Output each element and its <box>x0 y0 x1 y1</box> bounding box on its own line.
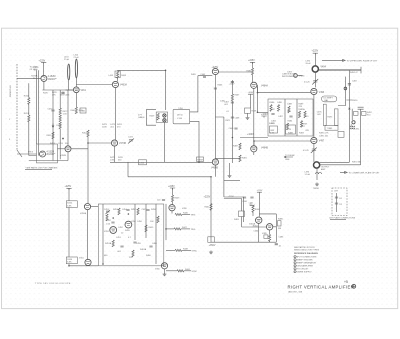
capacitor C467 <box>231 102 234 103</box>
svg-text:TO UPPER DEFL PLATE OF CRT: TO UPPER DEFL PLATE OF CRT <box>347 60 378 63</box>
capacitor C460 <box>149 246 152 247</box>
node junction dots in box <box>112 217 114 219</box>
svg-text:2.7K: 2.7K <box>271 109 276 111</box>
wire long line lower <box>128 176 211 178</box>
resistor R482 <box>252 62 254 68</box>
tube V453 <box>110 227 117 234</box>
tube V464B <box>212 159 218 165</box>
box R456 <box>66 257 77 264</box>
svg-text:TERM: TERM <box>197 159 203 161</box>
svg-text:OF V450: OF V450 <box>30 69 39 71</box>
resistor R462 <box>252 206 254 213</box>
wire <box>87 210 89 260</box>
box shield around Q471 <box>37 144 58 163</box>
trigger output row 3 <box>166 249 175 251</box>
svg-text:RIGHT VERTICAL AMPLIFIER: RIGHT VERTICAL AMPLIFIER <box>288 284 355 289</box>
transistor Q471 <box>40 151 46 157</box>
wire <box>313 144 315 162</box>
svg-text:2N2207*: 2N2207* <box>46 154 55 156</box>
box delay line termination T450 <box>173 109 190 124</box>
svg-text:V461: V461 <box>81 90 87 92</box>
wire <box>214 165 216 177</box>
capacitor C458 <box>120 246 123 247</box>
svg-text:V452A: V452A <box>80 212 87 215</box>
wire ground stub under V455 <box>164 269 166 273</box>
node termination lower <box>197 157 204 161</box>
svg-text:TRIG: TRIG <box>191 215 196 217</box>
resistor R452A <box>106 214 108 221</box>
capacitor C452 <box>111 222 114 223</box>
wire <box>163 122 165 162</box>
svg-text:CABLE: CABLE <box>138 116 145 119</box>
resistor R472 <box>59 108 61 115</box>
transistor Q470 <box>41 75 47 81</box>
node bracket TO CRT <box>278 221 282 226</box>
svg-text:R451A: R451A <box>105 242 112 245</box>
wire top feed <box>224 198 242 200</box>
wire inner columns <box>103 204 156 264</box>
wire right tall column inner <box>348 71 350 163</box>
tube V464A <box>212 68 218 74</box>
wire <box>313 95 315 138</box>
wire cathode chain <box>114 88 116 140</box>
resistor R452b <box>52 132 54 139</box>
svg-text:DE 50: DE 50 <box>177 114 183 116</box>
wire delay feed <box>258 111 269 113</box>
svg-text:+100V: +100V <box>261 114 268 116</box>
node J450 interconnecting-plug dashed line <box>16 64 18 150</box>
svg-text:TYPE 585 OSCILLOSCOPE: TYPE 585 OSCILLOSCOPE <box>35 283 71 285</box>
power +350V bottom <box>211 241 276 243</box>
svg-text:V463A: V463A <box>120 83 127 86</box>
tube V484A <box>251 82 257 88</box>
svg-text:+225V: +225V <box>228 196 235 198</box>
wire <box>165 204 167 240</box>
wire plate bus upper to output <box>258 87 311 113</box>
box picture-correction network <box>268 99 313 136</box>
wire <box>68 80 70 90</box>
resistor R458 <box>157 216 159 223</box>
node arrow symbol on x53 column <box>52 124 54 128</box>
svg-text:1 INPUT CONNECTORS: 1 INPUT CONNECTORS <box>294 256 317 258</box>
resistor R459 <box>157 113 159 120</box>
tube V452B <box>65 146 71 152</box>
coil L490 <box>350 124 355 129</box>
svg-text:SEE PARTS LIST FOR: SEE PARTS LIST FOR <box>294 246 315 249</box>
wire bottom join <box>29 160 68 162</box>
wire thick plate lead <box>318 69 361 71</box>
trigger output row 2 <box>166 228 174 230</box>
node components under V484B <box>234 128 237 129</box>
wire <box>253 88 255 145</box>
node connector circle <box>344 87 347 90</box>
wire <box>43 62 45 75</box>
node junction marks <box>349 108 351 110</box>
capacitor C493 trimmer <box>312 79 318 85</box>
svg-text:LINE: LINE <box>285 159 290 161</box>
box T-pad <box>325 126 338 131</box>
capacitor C487 <box>271 114 274 115</box>
svg-text:PIN 3: PIN 3 <box>28 151 34 153</box>
wire lower output of driver <box>190 121 199 162</box>
box L464 on line <box>139 160 147 165</box>
box R455 <box>66 201 77 208</box>
svg-text:100K: 100K <box>102 127 107 129</box>
delay line section 2 <box>335 109 339 126</box>
tube V452A <box>84 204 90 210</box>
svg-text:V464B: V464B <box>211 168 218 170</box>
svg-text:1.5K: 1.5K <box>63 114 68 116</box>
wire <box>269 230 271 234</box>
svg-text:R496 4.7K: R496 4.7K <box>319 133 329 135</box>
wire plate bus to delay driver <box>118 70 166 110</box>
svg-text:+225V: +225V <box>204 197 211 199</box>
svg-text:+225V: +225V <box>65 186 72 188</box>
box main lower amp box <box>98 204 164 266</box>
tube V484B <box>251 146 257 152</box>
wire emitter down <box>42 81 73 90</box>
box term <box>338 131 344 137</box>
wire collector rail <box>36 70 38 155</box>
wire long cathode line to V464B <box>110 161 212 163</box>
wire main top bus <box>76 84 112 86</box>
trigger output row 1 <box>175 213 182 215</box>
wire arrow to lower CRT plate <box>340 171 347 173</box>
capacitor pair on feed <box>243 197 246 198</box>
svg-text:V484B: V484B <box>261 148 268 150</box>
wire right leg <box>259 214 276 242</box>
svg-text:V484A: V484A <box>261 84 268 87</box>
wire right tall column outer <box>360 109 362 165</box>
node junction dots <box>68 70 258 267</box>
svg-text:6 POWER SUPPLY: 6 POWER SUPPLY <box>294 271 312 273</box>
power +225V above V484A <box>250 62 255 64</box>
wire into follower <box>66 89 74 91</box>
wire second inner column <box>351 109 353 120</box>
svg-text:+100V: +100V <box>247 134 254 136</box>
tube V454 <box>125 221 132 228</box>
tube V494 output dark <box>312 66 318 72</box>
svg-text:R494 47: R494 47 <box>350 72 358 74</box>
capacitor C491 <box>358 107 364 109</box>
wire upper output of driver <box>190 76 213 112</box>
svg-text:SYNC: SYNC <box>192 271 198 273</box>
wire <box>87 136 89 203</box>
wire <box>71 148 88 150</box>
wire main vertical at 257.5 <box>257 85 259 93</box>
wire <box>117 70 119 81</box>
svg-text:TO LOWER DEFL PLATE OF CRT: TO LOWER DEFL PLATE OF CRT <box>349 172 381 175</box>
tube V497 <box>311 137 317 143</box>
wire column x53 <box>52 90 54 161</box>
wire <box>258 223 260 242</box>
svg-text:JAN 1959 - 56B: JAN 1959 - 56B <box>288 290 303 293</box>
box R490 <box>354 112 359 116</box>
tube V459 <box>169 205 175 211</box>
svg-text:TO DELAY: TO DELAY <box>285 154 295 157</box>
wire <box>314 72 316 87</box>
ground <box>315 183 319 186</box>
svg-text:+225V: +225V <box>312 51 319 53</box>
svg-text:V497: V497 <box>319 141 325 143</box>
wire <box>75 93 77 107</box>
svg-text:+350V: +350V <box>209 245 216 247</box>
svg-text:V494: V494 <box>321 67 327 69</box>
wire arrow to upper CRT plate <box>322 59 345 61</box>
wire grid tap to V473B <box>88 142 111 144</box>
svg-text:+5: +5 <box>344 280 348 284</box>
wire <box>75 78 77 87</box>
connector circles with X <box>163 114 166 117</box>
capacitor C472 <box>51 110 54 111</box>
neon T452 vertical coil <box>75 59 77 78</box>
svg-text:REFERENCE DIAGRAMS: REFERENCE DIAGRAMS <box>294 252 318 255</box>
resistor inside <box>117 71 119 78</box>
capacitor C497 trimmer <box>311 148 317 154</box>
svg-text:V493: V493 <box>319 92 325 94</box>
node tube inner elements <box>66 71 316 267</box>
resistor R449 <box>171 195 173 202</box>
resistor R461 cluster <box>75 107 77 114</box>
node cluster under V461 <box>80 108 86 113</box>
svg-text:6.8K: 6.8K <box>67 205 72 207</box>
svg-text:T PAD: T PAD <box>327 127 333 130</box>
capacitor C489 <box>289 116 292 117</box>
node test point <box>294 74 298 78</box>
coil L496 <box>316 168 322 180</box>
wire plate link <box>219 71 253 73</box>
wire down from V473 area <box>127 162 129 177</box>
tube V497B output dark <box>314 162 320 168</box>
svg-text:TRIG: TRIG <box>191 229 196 231</box>
wire <box>91 206 98 208</box>
svg-text:R491 330: R491 330 <box>352 162 362 164</box>
svg-text:2N2207*: 2N2207* <box>48 79 57 81</box>
svg-text:SEMICONDUCTOR TYPES: SEMICONDUCTOR TYPES <box>294 250 320 252</box>
svg-text:27uH: 27uH <box>74 57 79 59</box>
svg-text:R461A: R461A <box>140 248 147 251</box>
resistor R483 <box>298 111 300 118</box>
svg-text:27uH: 27uH <box>64 59 69 61</box>
wire column x60 <box>59 90 61 108</box>
svg-text:+225V: +225V <box>39 60 46 62</box>
svg-text:4.5-25: 4.5-25 <box>304 82 311 84</box>
delay line driver cable loop <box>146 110 156 126</box>
wire <box>67 90 69 161</box>
svg-text:1.2K: 1.2K <box>287 129 292 131</box>
wire cathode link <box>215 157 240 159</box>
tube V463A <box>112 81 118 87</box>
wire <box>69 264 98 266</box>
svg-text:+225V: +225V <box>248 60 255 62</box>
svg-text:+100V: +100V <box>229 84 236 86</box>
node box small under V485 <box>264 235 268 239</box>
capacitor C468 <box>231 117 234 118</box>
wire left bias column <box>28 83 30 97</box>
svg-text:4 HORIZ AMPLIFIER: 4 HORIZ AMPLIFIER <box>294 264 313 267</box>
tube V451 <box>85 259 91 265</box>
tube V485 <box>266 224 272 230</box>
svg-text:4.5-25: 4.5-25 <box>303 150 310 152</box>
resistor R451 <box>28 115 30 122</box>
node junction dot <box>62 138 64 140</box>
node C456 mark <box>61 93 64 94</box>
svg-text:AMP: AMP <box>321 168 326 171</box>
node notes block <box>294 246 320 273</box>
svg-text:20uH: 20uH <box>306 63 311 65</box>
power +225V <box>66 188 71 190</box>
wire link to right column <box>320 161 350 163</box>
wire to delay note <box>284 156 293 158</box>
wire <box>114 146 116 162</box>
resistor R454 <box>87 130 89 137</box>
svg-text:1.5K: 1.5K <box>106 224 111 226</box>
svg-text:V473B: V473B <box>119 143 126 145</box>
resistor R485 <box>269 234 271 241</box>
svg-text:3 SWEEP GENERATOR: 3 SWEEP GENERATOR <box>294 261 316 264</box>
svg-text:SYNC: SYNC <box>192 250 198 252</box>
svg-text:TP494: TP494 <box>299 76 306 78</box>
resistor R470b <box>239 155 241 162</box>
delay line section 1 <box>323 104 326 125</box>
tube V461 cathode follower <box>73 87 79 93</box>
wire input lower <box>17 153 37 155</box>
box around coupling <box>156 112 167 122</box>
capacitor C474 trimmer <box>128 139 134 144</box>
tube V473B <box>111 140 117 146</box>
wire grid link <box>58 148 66 150</box>
resistor R450 <box>28 98 30 105</box>
neon T451 vertical coil <box>68 64 70 80</box>
svg-text:+225V: +225V <box>168 186 175 188</box>
wire <box>171 211 173 214</box>
wire input upper <box>17 77 41 79</box>
wire <box>215 75 243 222</box>
tube V461A <box>256 217 262 223</box>
resistor R467 <box>231 94 233 101</box>
node DC SHIFT oval label <box>322 96 337 102</box>
resistor R461A <box>132 250 134 257</box>
svg-text:1.2uH: 1.2uH <box>305 174 311 176</box>
svg-text:FROM PLUG: FROM PLUG <box>10 85 12 97</box>
svg-text:V452B: V452B <box>60 155 67 157</box>
trigger output row 4 <box>166 270 177 272</box>
svg-text:1.8K: 1.8K <box>110 160 115 162</box>
svg-text:R485A: R485A <box>299 108 306 111</box>
wire riser <box>210 177 212 242</box>
box peaking network above V473A <box>115 71 120 78</box>
capacitor C492 <box>348 84 351 85</box>
box R492 <box>362 112 367 116</box>
svg-text:2 SWEEP TRIGGER: 2 SWEEP TRIGGER <box>294 259 313 261</box>
wire plate bus lower <box>254 141 311 155</box>
tube V455 on bottom line <box>161 263 167 269</box>
capacitor C449 <box>162 200 165 201</box>
box R463 <box>242 199 267 228</box>
svg-text:C496 .001: C496 .001 <box>319 135 329 137</box>
svg-text:TERM: TERM <box>313 188 319 190</box>
tube V493 <box>311 88 317 94</box>
wire switch contact <box>17 150 22 157</box>
wire ground stub <box>229 163 231 174</box>
resistor R489 <box>304 111 306 118</box>
node small circle <box>352 121 355 124</box>
svg-text:6.8K: 6.8K <box>67 262 72 264</box>
